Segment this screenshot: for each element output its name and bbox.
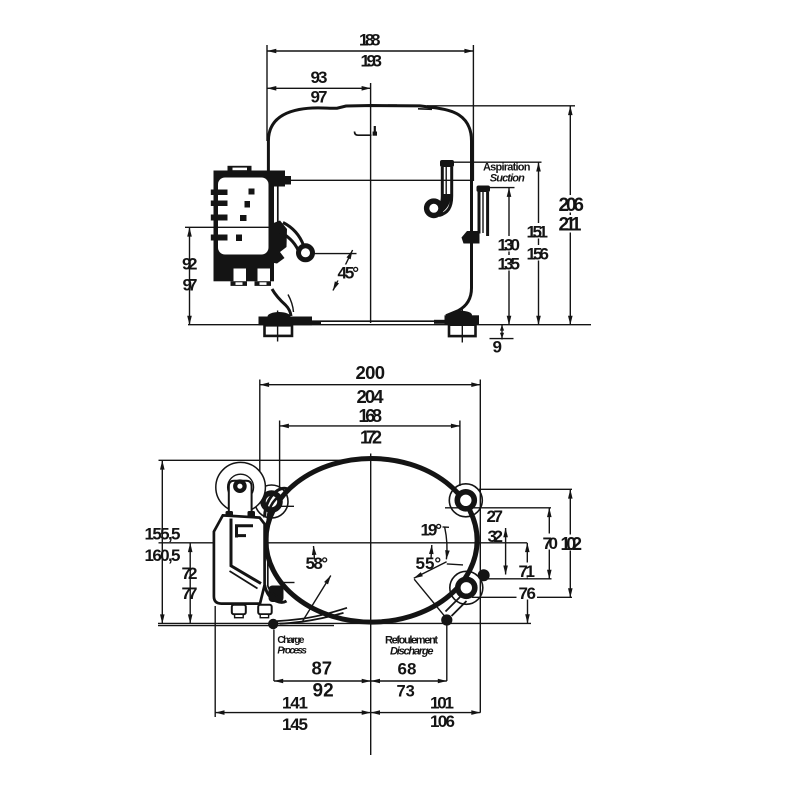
dim line 130/135 xyxy=(508,188,510,325)
dim line 200/204 xyxy=(260,384,481,386)
seam patch top right xyxy=(418,108,432,111)
shell weld seam line xyxy=(269,179,473,181)
dim text 206 xyxy=(557,195,586,213)
electrical box white interior xyxy=(218,178,269,255)
angle 19 leader xyxy=(447,564,463,565)
bottom reference line L2 xyxy=(158,625,334,627)
svg-text:32: 32 xyxy=(488,527,504,546)
svg-text:106: 106 xyxy=(430,712,455,731)
45 degree process tube upper wall xyxy=(283,223,304,246)
tick line 130/135 xyxy=(485,187,515,189)
tube fitting blob right of box xyxy=(269,221,288,264)
left ext line 141 xyxy=(214,606,216,717)
dim 155,5 text xyxy=(143,526,182,541)
svg-text:172: 172 xyxy=(360,427,382,447)
dim 27/32 vertical xyxy=(505,528,507,575)
lug center dash left bottom xyxy=(281,582,295,584)
svg-text:27: 27 xyxy=(487,507,504,526)
angle 55 leg upper xyxy=(414,562,447,578)
discharge J-tube cap xyxy=(440,160,454,167)
svg-text:76: 76 xyxy=(519,584,537,603)
protector cover circle xyxy=(216,462,266,512)
svg-text:71: 71 xyxy=(519,562,536,581)
line y597 xyxy=(472,596,572,598)
dim 76 vertical xyxy=(527,597,529,623)
bracket lines box to shell xyxy=(265,488,288,517)
dim line 92/97 xyxy=(189,227,191,324)
J-tube elbow xyxy=(437,194,447,211)
dim line 206/211 xyxy=(569,106,571,325)
svg-text:45°: 45° xyxy=(338,264,360,283)
svg-text:92: 92 xyxy=(313,680,334,701)
charge tube lower wall xyxy=(280,613,344,624)
seam dash on top xyxy=(388,104,397,106)
baseline reference xyxy=(188,324,591,326)
svg-text:19°: 19° xyxy=(421,520,443,539)
terminal box top view outline xyxy=(214,515,265,603)
svg-text:Process: Process xyxy=(277,646,307,657)
svg-text:Suction: Suction xyxy=(490,173,525,185)
angle 19 top tick xyxy=(443,526,450,528)
discharge tube walls xyxy=(452,601,467,616)
terminal pins in box xyxy=(249,189,255,195)
svg-text:206: 206 xyxy=(559,195,585,216)
bottom-right mounting lug outline xyxy=(450,571,483,604)
top-left lug ring xyxy=(263,493,280,510)
svg-text:Charge: Charge xyxy=(277,635,304,646)
svg-text:141: 141 xyxy=(282,693,308,712)
electrical box side view: outer black body xyxy=(214,171,275,282)
protector inner circle xyxy=(228,474,254,500)
dim text 130 xyxy=(496,236,522,252)
svg-text:168: 168 xyxy=(359,406,383,426)
discharge tube end dot xyxy=(441,614,452,625)
angle 55 leg lower xyxy=(414,579,447,619)
9 dim lower line xyxy=(490,338,514,340)
dim 77 text xyxy=(180,585,199,600)
svg-text:Discharge: Discharge xyxy=(390,646,434,658)
top-right mounting lug outline xyxy=(449,484,482,517)
dim line 141 xyxy=(215,712,371,714)
45 degree process tube lower wall xyxy=(278,231,299,251)
tick line 92/97 through box xyxy=(185,226,270,228)
dim text 102 xyxy=(559,535,584,551)
vertical centerline bottom figure xyxy=(370,454,372,756)
box bottom tabs xyxy=(231,281,248,286)
angle 55 up arrow xyxy=(430,545,433,559)
svg-text:101: 101 xyxy=(430,693,454,712)
dim text 156 xyxy=(525,245,552,261)
ext line 200/101 right xyxy=(479,380,481,713)
dim line 101 xyxy=(371,712,481,714)
bottom-right lug ring xyxy=(458,579,475,596)
line through top-right lug center y489 xyxy=(479,488,572,490)
lug center dash left top xyxy=(278,505,295,507)
dim 71 vertical xyxy=(526,543,528,579)
svg-text:97: 97 xyxy=(311,88,328,107)
suction tube fitting xyxy=(462,231,480,244)
extension line right of 188 xyxy=(472,45,474,181)
lifting tab on shell top xyxy=(355,132,372,136)
vent fins inside box xyxy=(211,190,217,196)
dim line 93/97 xyxy=(267,87,371,89)
J-tube end circle xyxy=(427,201,441,215)
svg-text:87: 87 xyxy=(312,657,333,678)
suction stub dot xyxy=(478,569,490,581)
line y579 from stub xyxy=(488,578,552,580)
box inner vertical line xyxy=(231,519,261,584)
svg-text:9: 9 xyxy=(493,337,502,356)
svg-text:93: 93 xyxy=(311,68,328,87)
angle 58 leg xyxy=(303,576,331,621)
right foot center tick xyxy=(461,310,463,343)
dim line 72/77 xyxy=(189,543,191,624)
svg-text:68: 68 xyxy=(398,659,417,678)
dim text 97 left xyxy=(181,276,199,292)
discharge ext line xyxy=(446,626,448,682)
ext line 168 right xyxy=(459,421,461,487)
angle 58 up arrow xyxy=(314,546,315,560)
shell edge behind tube fitting xyxy=(277,186,279,226)
svg-text:135: 135 xyxy=(498,254,521,273)
suction tube walls xyxy=(478,192,481,234)
svg-text:211: 211 xyxy=(559,215,582,236)
dim text 151 xyxy=(525,223,551,239)
top-right lug ring xyxy=(457,492,474,509)
svg-text:193: 193 xyxy=(361,52,383,71)
svg-text:156: 156 xyxy=(527,244,550,263)
discharge J-tube walls xyxy=(436,167,442,210)
tick line 206/211 xyxy=(427,105,575,107)
horizontal centerline bottom figure xyxy=(159,542,528,544)
terminal tabs under box xyxy=(232,605,246,615)
dim text 70 xyxy=(541,534,560,550)
svg-text:188: 188 xyxy=(359,31,381,50)
dim line 151/156 xyxy=(538,162,540,325)
shell skirt fold line xyxy=(288,295,294,313)
tick line 151/156 xyxy=(441,161,542,163)
tube end circle xyxy=(299,246,313,260)
dim text 9 xyxy=(491,340,504,354)
top-left mounting lug outline xyxy=(255,485,288,518)
box F detail xyxy=(235,526,253,538)
left foot center tick xyxy=(277,311,279,342)
bottom-left lug dark blob xyxy=(269,586,284,603)
shell ellipse top view xyxy=(266,459,477,623)
ext line 168 left xyxy=(279,421,281,490)
box bottom windows xyxy=(234,269,247,282)
left mounting foot xyxy=(259,317,313,326)
dim text 71 xyxy=(517,563,537,578)
electrical box top tab xyxy=(228,166,252,172)
dim text 135 xyxy=(496,255,522,271)
svg-text:58°: 58° xyxy=(306,554,329,573)
dim text 45deg xyxy=(336,265,361,281)
svg-text:73: 73 xyxy=(397,682,415,700)
extension line left of 188 xyxy=(266,45,268,141)
svg-text:102: 102 xyxy=(561,534,583,554)
left rubber grommet xyxy=(265,325,293,336)
dim 70 vertical xyxy=(548,508,550,579)
right rubber grommet xyxy=(449,325,476,336)
svg-text:151: 151 xyxy=(527,222,549,241)
dim line 87 xyxy=(274,680,371,682)
svg-text:70: 70 xyxy=(543,534,559,553)
45 deg slanted leg xyxy=(333,250,353,291)
charge tube end dot xyxy=(268,619,278,629)
dim text 76 xyxy=(517,585,538,600)
svg-text:130: 130 xyxy=(498,235,521,254)
tick line top y460 xyxy=(159,459,397,461)
dim line 155,5 xyxy=(161,460,163,623)
box inner diagonal xyxy=(230,571,258,589)
box mounting bracket to shell xyxy=(269,171,286,187)
protector bolt xyxy=(235,482,244,491)
dim 102 vertical xyxy=(569,489,571,597)
line y508 xyxy=(445,507,551,509)
svg-text:204: 204 xyxy=(357,386,385,407)
9 dim vertical xyxy=(501,325,503,351)
dim text 211 xyxy=(557,215,583,233)
dim 160,5 text xyxy=(143,547,182,562)
dim line 168/172 xyxy=(280,425,460,427)
lifting tab tick xyxy=(374,126,376,135)
svg-text:200: 200 xyxy=(356,362,386,383)
shell skirt bottom-left xyxy=(272,289,291,316)
svg-text:145: 145 xyxy=(282,715,308,734)
dim line 188/193 xyxy=(267,50,473,52)
ext line 200 left xyxy=(259,380,261,490)
vertical centerline of shell xyxy=(370,83,372,323)
compressor shell outline xyxy=(268,106,471,316)
strap corner blobs xyxy=(226,511,234,519)
dim text 92 left xyxy=(181,255,199,271)
strap over protector xyxy=(229,481,252,517)
angle 19 arc xyxy=(445,527,447,559)
charge ext line xyxy=(273,630,275,682)
charge tube upper wall xyxy=(277,608,347,621)
right mounting foot xyxy=(445,315,480,324)
bottom reference line L1 xyxy=(158,622,531,624)
dim line 68 xyxy=(371,680,447,682)
svg-text:55°: 55° xyxy=(416,554,442,573)
dim 72 text xyxy=(180,565,199,580)
skirt bottom line between feet xyxy=(291,320,446,322)
suction tube cap xyxy=(477,186,491,193)
45 deg horizontal leg xyxy=(314,253,357,255)
